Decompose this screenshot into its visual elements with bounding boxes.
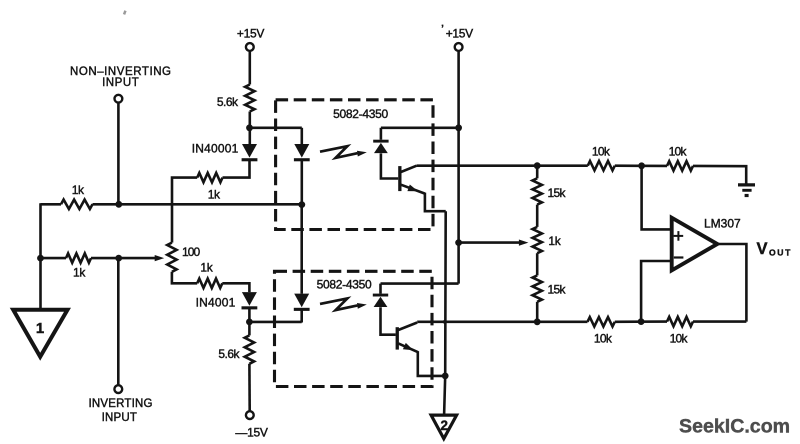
photodiode of U2 (373, 294, 388, 307)
input common triangle 1 (13, 310, 67, 357)
svg-text:OUT: OUT (769, 248, 792, 258)
diode IN40001 (242, 144, 258, 161)
node junction photodiode1 wire (455, 124, 462, 131)
label 10k top-right (669, 145, 688, 159)
label 10k top-left (592, 145, 611, 159)
output common triangle 2 (431, 415, 457, 439)
node junction emitters (442, 373, 449, 380)
label +15V left (237, 26, 264, 40)
wire wiper arrow to 1k pot (459, 241, 520, 244)
svg-text:15k: 15k (548, 283, 567, 297)
label 1k (non-inverting) (72, 183, 85, 197)
wire +15V down to 5.6k (249, 51, 252, 85)
label IN4001 (196, 295, 236, 309)
svg-text:5.6k: 5.6k (218, 347, 240, 361)
svg-text:+15V: +15V (446, 26, 473, 40)
wire photodiode1 to +15V line (381, 127, 459, 130)
label 100 (182, 245, 201, 259)
wire 15k to 1k pot (536, 205, 539, 227)
svg-text:5082-4350: 5082-4350 (317, 277, 372, 291)
svg-text:—15V: —15V (235, 425, 267, 439)
transistor Q1 collector (401, 166, 417, 172)
light arrow U2 (320, 298, 367, 310)
wire bottom rail middle (615, 320, 667, 323)
svg-text:100: 100 (182, 245, 201, 259)
svg-text:2: 2 (441, 418, 449, 433)
terminal NON-INVERTING INPUT (115, 95, 123, 103)
optocoupler U1 dashed box 5082-4350 (276, 100, 433, 230)
label LM307 (704, 217, 741, 231)
label 5082-4350 bottom (317, 277, 372, 291)
resistor 10k top-left (588, 161, 615, 170)
wire 1k to IN4001 (222, 283, 249, 292)
wire IN4001 to junction (248, 309, 251, 335)
wire left top horizontal (41, 203, 62, 206)
svg-text:5082-4350: 5082-4350 (333, 107, 388, 121)
resistor 1k (series IN40001) (197, 173, 222, 182)
label 1k (series IN40001) (208, 187, 221, 201)
wire non-inv terminal down (117, 103, 120, 205)
terminal -15V (246, 411, 254, 419)
label 10k bottom-right (670, 332, 689, 346)
wire +15V right vertical (457, 51, 460, 284)
wire inv row to junction (91, 257, 119, 260)
transistor Q2 collector (398, 323, 417, 331)
node junction pot wiper wire (455, 239, 462, 246)
wire 10k to ground corner (693, 166, 746, 184)
node junction op-amp + feed (638, 162, 645, 169)
node junction inverting input (115, 255, 122, 262)
op-amp U3 LM307 (672, 218, 718, 271)
wire inverting terminal up (117, 258, 120, 385)
light arrow U1 (320, 146, 367, 158)
resistor 10k bottom-left (588, 317, 615, 326)
label 15k upper (548, 186, 567, 200)
label 1 inside triangle (36, 320, 44, 337)
resistor 5.6k bottom (245, 335, 254, 363)
svg-text:INPUT: INPUT (102, 77, 139, 89)
wire 10k to 10k top (615, 164, 667, 167)
node junction inverting row left (37, 255, 44, 262)
svg-text:1k: 1k (72, 183, 85, 197)
wire arrow to 100 pot wiper (119, 257, 156, 260)
photodiode of U1 (373, 140, 388, 153)
wire LED1 top drop (300, 128, 303, 144)
watermark SeekIC.com (679, 415, 790, 437)
label +15V right (441, 23, 473, 40)
wire left vertical to input common (39, 203, 42, 310)
transistor Q2 emitter (398, 343, 418, 352)
transistor Q2 base bar (396, 327, 399, 349)
wire emitter common vertical (444, 211, 446, 415)
svg-text:+15V: +15V (237, 26, 264, 40)
label 2 inside triangle (441, 418, 449, 433)
wire op-amp - input feed (641, 261, 672, 322)
wire 1k to 100 pot top (172, 178, 197, 243)
wire photodiode2 to +15V line (381, 282, 459, 285)
wire LED2 bottom to junction wire (300, 309, 303, 323)
LED of optocoupler U2 (294, 294, 310, 311)
op-amp plus sign (674, 231, 684, 241)
svg-text:15k: 15k (548, 186, 567, 200)
terminal +15V left (246, 43, 254, 51)
svg-text:LM307: LM307 (704, 217, 741, 231)
svg-text:10k: 10k (592, 145, 611, 159)
label VOUT (757, 240, 792, 258)
arrowhead at 1k pot (519, 240, 529, 246)
label 1k (inverting) (73, 266, 86, 280)
ground symbol (738, 185, 755, 197)
resistor 15k upper (533, 178, 542, 204)
wire 5.6k to junction (249, 112, 252, 145)
label 5.6k top (217, 95, 239, 109)
wire LED2 top to node (300, 205, 303, 294)
wire 5.6k bottom to -15V (248, 364, 251, 411)
label 1k (series IN4001) (200, 261, 213, 275)
wire top horizontal to LED1 (93, 203, 302, 206)
node crossing blob emitter/collector (443, 320, 447, 324)
node junction 15k bottom (534, 318, 541, 325)
terminal INVERTING INPUT (114, 385, 122, 393)
label 5082-4350 top (333, 107, 388, 121)
wire 100 pot bottom to 1k (172, 272, 197, 284)
wire 1k pot to 15k lower (536, 253, 539, 275)
diode IN4001 (242, 292, 258, 309)
wire photodiode1 up (380, 128, 383, 140)
svg-text:5.6k: 5.6k (217, 95, 239, 109)
label INVERTING INPUT (88, 398, 152, 424)
optocoupler U2 dashed box 5082-4350 (275, 271, 433, 386)
svg-text:10k: 10k (670, 332, 689, 346)
potentiometer 1k (533, 227, 542, 253)
wire photodiode2 to base (381, 307, 396, 334)
wire 15k top stub (536, 166, 539, 179)
svg-text:1k: 1k (208, 187, 221, 201)
label 10k bottom-left (594, 332, 613, 346)
svg-text:INPUT: INPUT (102, 412, 138, 424)
node junction LED1/input wire (298, 201, 305, 208)
wire op-amp output (717, 244, 746, 322)
wire inv row left (41, 257, 67, 260)
resistor 15k lower (533, 275, 542, 301)
resistor 1k (series IN4001) (197, 279, 222, 288)
wire photodiode1 to base (381, 153, 398, 178)
svg-text:V: V (757, 240, 768, 258)
svg-text:10k: 10k (669, 145, 688, 159)
svg-text:ʼ: ʼ (441, 23, 444, 33)
label 15k lower (548, 283, 567, 297)
node junction IN4001/5.6k/LED2 (246, 319, 253, 326)
wire Q2 emitter down/right (418, 351, 445, 376)
label NON-INVERTING INPUT (70, 66, 172, 89)
svg-text:INVERTING: INVERTING (88, 398, 152, 410)
arrowhead at 100 pot wiper (155, 255, 165, 261)
wire feedback to Vout corner (693, 320, 746, 323)
resistor 5.6k top (245, 85, 254, 112)
label IN40001 (192, 142, 239, 156)
wire Q1 collector rail (417, 164, 588, 167)
wire junction to LED1 top (250, 127, 302, 130)
wire LED1 bottom to node (300, 161, 303, 205)
resistor 10k bottom-right (feedback) (667, 317, 693, 326)
svg-text:IN40001: IN40001 (192, 142, 239, 156)
node junction 5.6k/IN40001/LED1 (246, 124, 253, 131)
svg-text:1k: 1k (548, 234, 561, 248)
wire Q1 emitter down/right (425, 193, 446, 212)
node junction 15k top (534, 162, 541, 169)
label 5.6k bottom (218, 347, 240, 361)
label -15V (235, 425, 267, 439)
terminal +15V right (455, 43, 463, 51)
potentiometer 100 (167, 243, 176, 272)
wire 15k lower to bottom rail (536, 302, 539, 322)
svg-text:IN4001: IN4001 (196, 295, 236, 309)
wire junction to LED2 bottom (249, 321, 301, 324)
op-amp minus sign (674, 256, 684, 258)
wire photodiode2 up (379, 284, 382, 294)
node junction non-inv/1k (115, 201, 122, 208)
svg-text:1k: 1k (73, 266, 86, 280)
transistor Q1 emitter (401, 185, 425, 194)
resistor R 1k (inverting input) (66, 253, 91, 262)
wire Q2 collector rail (417, 320, 587, 323)
svg-text:SeekIC.com: SeekIC.com (679, 415, 790, 437)
svg-text:10k: 10k (594, 332, 613, 346)
label 1k pot (548, 234, 561, 248)
wire op-amp + input feed (642, 166, 672, 230)
resistor R 1k (non-inverting input) (61, 200, 93, 209)
node junction op-amp - feed (638, 318, 645, 325)
transistor Q1 base bar (398, 166, 401, 191)
wire IN40001 to 1k (223, 161, 250, 178)
resistor 10k top-right (667, 161, 693, 170)
svg-text:1: 1 (36, 320, 44, 337)
LED of optocoupler U1 (294, 144, 310, 161)
speck top-left (123, 10, 127, 15)
svg-text:1k: 1k (200, 261, 213, 275)
